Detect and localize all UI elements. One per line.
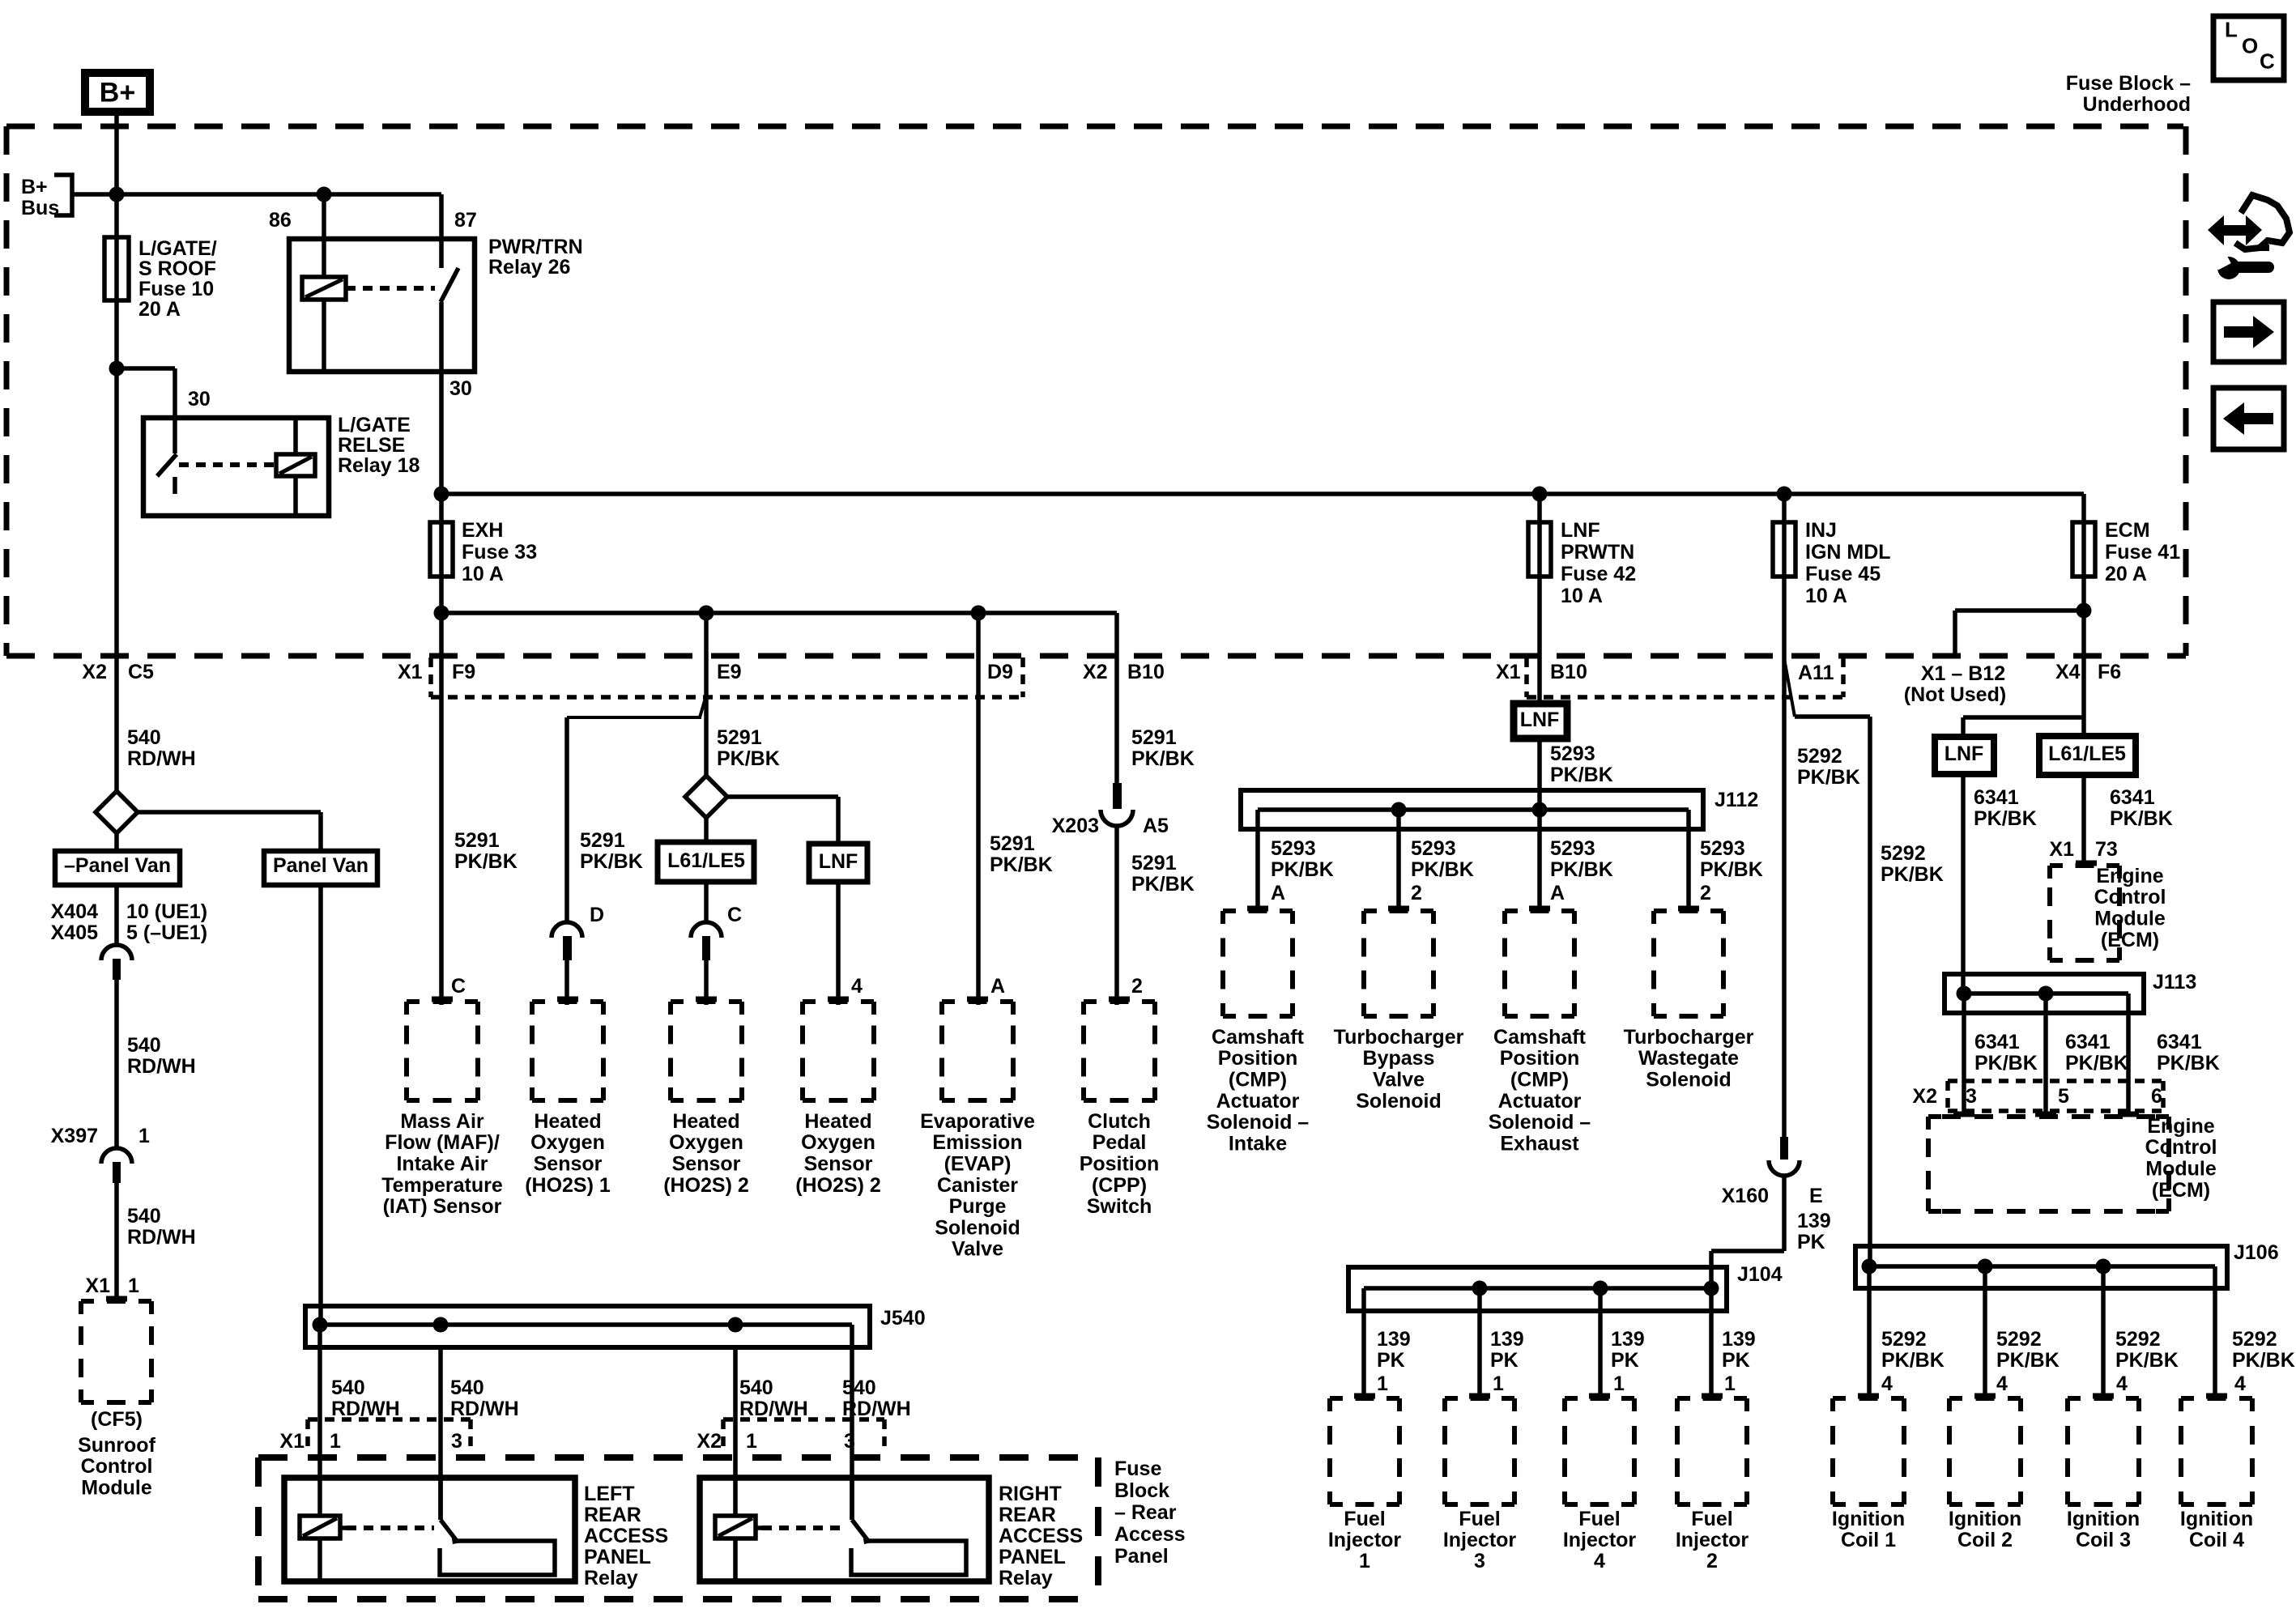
svg-text:S ROOF: S ROOF — [138, 257, 216, 280]
svg-text:Wastegate: Wastegate — [1638, 1047, 1739, 1070]
svg-text:PWR/TRN: PWR/TRN — [488, 236, 583, 258]
svg-text:1: 1 — [330, 1430, 341, 1453]
svg-text:X1: X1 — [398, 661, 423, 683]
svg-text:L: L — [2225, 18, 2238, 42]
svg-text:Position: Position — [1080, 1153, 1160, 1176]
svg-text:L/GATE: L/GATE — [338, 414, 411, 436]
svg-text:LEFT: LEFT — [584, 1483, 635, 1505]
svg-text:X404: X404 — [51, 900, 98, 923]
svg-text:Valve: Valve — [952, 1238, 1003, 1261]
svg-text:3: 3 — [1966, 1085, 1977, 1108]
svg-text:RD/WH: RD/WH — [450, 1398, 519, 1420]
svg-text:10 A: 10 A — [1561, 585, 1603, 607]
svg-text:1: 1 — [138, 1125, 150, 1147]
svg-text:Oxygen: Oxygen — [669, 1131, 743, 1154]
svg-text:X160: X160 — [1722, 1185, 1769, 1207]
svg-text:139: 139 — [1797, 1210, 1831, 1232]
svg-text:Sensor: Sensor — [534, 1153, 603, 1176]
svg-text:87: 87 — [454, 209, 477, 232]
svg-text:A11: A11 — [1798, 662, 1834, 684]
svg-text:RIGHT: RIGHT — [999, 1483, 1062, 1505]
svg-text:Intake: Intake — [1229, 1132, 1287, 1155]
svg-text:RD/WH: RD/WH — [127, 1226, 196, 1249]
svg-text:PK/BK: PK/BK — [1550, 764, 1613, 786]
svg-text:(HO2S) 2: (HO2S) 2 — [795, 1174, 881, 1197]
svg-text:X405: X405 — [51, 921, 98, 944]
svg-text:Clutch: Clutch — [1088, 1110, 1151, 1133]
svg-text:6: 6 — [2151, 1085, 2162, 1108]
svg-text:Panel: Panel — [1114, 1545, 1169, 1568]
svg-text:2: 2 — [1411, 882, 1422, 904]
svg-text:PK/BK: PK/BK — [2115, 1349, 2179, 1372]
svg-text:Module: Module — [81, 1477, 152, 1500]
svg-text:O: O — [2242, 34, 2258, 58]
svg-text:PK/BK: PK/BK — [990, 853, 1053, 876]
svg-text:Sensor: Sensor — [672, 1153, 741, 1176]
svg-text:PK/BK: PK/BK — [2157, 1052, 2220, 1074]
svg-text:PK: PK — [1611, 1349, 1639, 1372]
svg-text:–Panel Van: –Panel Van — [64, 854, 171, 877]
svg-text:Temperature: Temperature — [381, 1174, 503, 1197]
svg-text:10 A: 10 A — [1805, 585, 1847, 607]
svg-text:LNF: LNF — [1520, 709, 1560, 731]
svg-text:PK/BK: PK/BK — [1700, 858, 1763, 881]
svg-text:Coil 1: Coil 1 — [1841, 1529, 1896, 1551]
svg-text:ECM: ECM — [2105, 519, 2150, 542]
svg-text:X2: X2 — [1083, 661, 1108, 683]
svg-text:Coil 4: Coil 4 — [2189, 1529, 2244, 1551]
svg-text:Relay: Relay — [999, 1567, 1053, 1589]
svg-text:Exhaust: Exhaust — [1500, 1132, 1579, 1155]
svg-text:1: 1 — [1724, 1372, 1736, 1395]
svg-text:Access: Access — [1114, 1523, 1186, 1546]
svg-text:Solenoid: Solenoid — [1356, 1090, 1442, 1113]
svg-text:PK/BK: PK/BK — [1881, 863, 1944, 886]
svg-text:139: 139 — [1611, 1328, 1645, 1351]
svg-text:(ECM): (ECM) — [2152, 1179, 2210, 1202]
svg-text:6341: 6341 — [2065, 1031, 2111, 1053]
svg-text:6341: 6341 — [2157, 1031, 2202, 1053]
svg-text:LNF: LNF — [1561, 519, 1600, 542]
svg-text:Intake Air: Intake Air — [396, 1153, 488, 1176]
svg-text:X397: X397 — [51, 1125, 98, 1147]
svg-text:PK: PK — [1490, 1349, 1519, 1372]
svg-text:5293: 5293 — [1550, 743, 1595, 765]
svg-text:5291: 5291 — [990, 832, 1035, 855]
svg-text:5291: 5291 — [580, 829, 625, 852]
svg-text:5293: 5293 — [1550, 837, 1595, 860]
svg-text:Sensor: Sensor — [804, 1153, 873, 1176]
svg-text:5291: 5291 — [717, 726, 762, 749]
svg-text:EXH: EXH — [462, 519, 503, 542]
svg-text:Evaporative: Evaporative — [920, 1110, 1035, 1133]
svg-text:X2: X2 — [696, 1430, 722, 1453]
svg-text:2: 2 — [1131, 975, 1143, 998]
svg-text:4: 4 — [851, 975, 863, 998]
svg-text:Heated: Heated — [534, 1110, 601, 1133]
svg-text:Bus: Bus — [21, 197, 59, 219]
svg-text:1: 1 — [128, 1274, 139, 1297]
svg-text:Bypass: Bypass — [1363, 1047, 1435, 1070]
svg-text:6341: 6341 — [1974, 786, 2019, 809]
svg-text:540: 540 — [842, 1377, 876, 1399]
svg-text:4: 4 — [1996, 1372, 2008, 1395]
svg-text:139: 139 — [1377, 1328, 1411, 1351]
svg-text:B+: B+ — [21, 176, 48, 198]
svg-text:5293: 5293 — [1271, 837, 1316, 860]
svg-text:Fuse Block –: Fuse Block – — [2066, 72, 2191, 95]
svg-text:Camshaft: Camshaft — [1212, 1026, 1305, 1049]
svg-text:(ECM): (ECM) — [2101, 929, 2159, 951]
svg-text:5291: 5291 — [1131, 852, 1177, 874]
svg-text:Position: Position — [1500, 1047, 1580, 1070]
svg-text:PK/BK: PK/BK — [2110, 807, 2173, 830]
svg-text:Flow (MAF)/: Flow (MAF)/ — [385, 1131, 500, 1154]
svg-text:Module: Module — [2145, 1158, 2217, 1181]
svg-text:Fuse: Fuse — [1114, 1457, 1161, 1480]
svg-text:Camshaft: Camshaft — [1493, 1026, 1587, 1049]
svg-text:J540: J540 — [880, 1307, 926, 1330]
svg-text:Coil 2: Coil 2 — [1957, 1529, 2013, 1551]
svg-text:Control: Control — [81, 1455, 153, 1478]
svg-text:IGN MDL: IGN MDL — [1805, 541, 1891, 564]
svg-text:RD/WH: RD/WH — [127, 1055, 196, 1078]
svg-text:Turbocharger: Turbocharger — [1334, 1026, 1464, 1049]
svg-text:Turbocharger: Turbocharger — [1624, 1026, 1754, 1049]
svg-text:Actuator: Actuator — [1498, 1090, 1582, 1113]
svg-text:20 A: 20 A — [2105, 563, 2147, 585]
svg-text:L/GATE/: L/GATE/ — [138, 237, 217, 260]
svg-text:(IAT) Sensor: (IAT) Sensor — [383, 1195, 502, 1218]
svg-text:PK: PK — [1797, 1231, 1825, 1253]
svg-text:J104: J104 — [1737, 1263, 1783, 1286]
svg-text:Mass Air: Mass Air — [400, 1110, 484, 1133]
svg-text:1: 1 — [1613, 1372, 1625, 1395]
svg-text:Emission: Emission — [932, 1131, 1022, 1154]
svg-text:PK/BK: PK/BK — [2232, 1349, 2295, 1372]
svg-text:PK/BK: PK/BK — [1996, 1349, 2060, 1372]
svg-text:C: C — [727, 904, 742, 926]
svg-text:Block: Block — [1114, 1479, 1169, 1502]
svg-text:X2: X2 — [82, 661, 107, 683]
svg-text:Solenoid: Solenoid — [1646, 1069, 1732, 1091]
svg-text:(CMP): (CMP) — [1229, 1069, 1287, 1091]
svg-text:X1: X1 — [85, 1274, 110, 1297]
svg-text:4: 4 — [2116, 1372, 2128, 1395]
svg-text:PANEL: PANEL — [999, 1546, 1066, 1568]
svg-text:RD/WH: RD/WH — [842, 1398, 911, 1420]
svg-text:Panel Van: Panel Van — [273, 854, 368, 877]
svg-text:30: 30 — [449, 377, 472, 400]
svg-text:REAR: REAR — [999, 1504, 1056, 1526]
svg-text:Engine: Engine — [2096, 865, 2163, 887]
svg-text:Sunroof: Sunroof — [78, 1434, 155, 1457]
svg-text:PK/BK: PK/BK — [717, 747, 780, 770]
svg-text:PK: PK — [1377, 1349, 1405, 1372]
svg-text:Switch: Switch — [1087, 1195, 1152, 1218]
svg-text:6341: 6341 — [2110, 786, 2155, 809]
svg-text:86: 86 — [269, 209, 292, 232]
svg-text:Solenoid –: Solenoid – — [1489, 1111, 1591, 1134]
svg-text:5292: 5292 — [1881, 1328, 1927, 1351]
svg-text:Solenoid: Solenoid — [935, 1216, 1020, 1239]
svg-text:(HO2S) 1: (HO2S) 1 — [525, 1174, 611, 1197]
svg-text:Underhood: Underhood — [2083, 93, 2191, 116]
svg-text:3: 3 — [1474, 1550, 1485, 1572]
svg-text:(HO2S) 2: (HO2S) 2 — [663, 1174, 749, 1197]
svg-text:Canister: Canister — [937, 1174, 1018, 1197]
svg-text:Injector: Injector — [1563, 1529, 1637, 1551]
svg-text:PK/BK: PK/BK — [1797, 766, 1860, 789]
svg-text:X1: X1 — [279, 1430, 305, 1453]
svg-text:1: 1 — [1359, 1550, 1370, 1572]
svg-text:2: 2 — [1700, 882, 1711, 904]
svg-text:PK/BK: PK/BK — [1131, 747, 1195, 770]
svg-text:4: 4 — [1594, 1550, 1605, 1572]
svg-text:D9: D9 — [987, 661, 1013, 683]
svg-text:Ignition: Ignition — [1832, 1508, 1905, 1530]
svg-text:Oxygen: Oxygen — [530, 1131, 605, 1154]
svg-text:5293: 5293 — [1700, 837, 1745, 860]
svg-text:X2: X2 — [1912, 1085, 1937, 1108]
svg-text:Fuse 42: Fuse 42 — [1561, 563, 1636, 585]
svg-text:Ignition: Ignition — [2067, 1508, 2140, 1530]
svg-text:A: A — [1550, 882, 1565, 904]
svg-text:– Rear: – Rear — [1114, 1501, 1177, 1524]
svg-text:Control: Control — [2145, 1136, 2217, 1159]
svg-text:F9: F9 — [452, 661, 475, 683]
svg-text:Heated: Heated — [804, 1110, 871, 1133]
svg-text:E: E — [1809, 1185, 1823, 1207]
svg-text:J113: J113 — [2153, 971, 2196, 994]
svg-text:RD/WH: RD/WH — [127, 747, 196, 770]
svg-text:Actuator: Actuator — [1216, 1090, 1300, 1113]
svg-text:PANEL: PANEL — [584, 1546, 651, 1568]
svg-text:J106: J106 — [2234, 1241, 2279, 1264]
svg-text:Purge: Purge — [949, 1195, 1007, 1218]
svg-text:4: 4 — [1881, 1372, 1893, 1395]
svg-text:RD/WH: RD/WH — [739, 1398, 808, 1420]
svg-text:PK/BK: PK/BK — [1131, 873, 1195, 896]
svg-text:C5: C5 — [128, 661, 154, 683]
svg-text:Ignition: Ignition — [2180, 1508, 2253, 1530]
svg-text:B10: B10 — [1127, 661, 1165, 683]
svg-text:1: 1 — [1493, 1372, 1504, 1395]
svg-text:B10: B10 — [1550, 661, 1587, 683]
svg-text:3: 3 — [844, 1430, 855, 1453]
svg-text:5291: 5291 — [1131, 726, 1177, 749]
svg-text:Fuse 33: Fuse 33 — [462, 541, 537, 564]
svg-text:1: 1 — [1377, 1372, 1388, 1395]
svg-text:RD/WH: RD/WH — [331, 1398, 400, 1420]
svg-text:1: 1 — [746, 1430, 757, 1453]
svg-text:(CF5): (CF5) — [91, 1408, 143, 1431]
svg-text:Fuse 45: Fuse 45 — [1805, 563, 1881, 585]
svg-text:139: 139 — [1490, 1328, 1524, 1351]
svg-text:Oxygen: Oxygen — [801, 1131, 875, 1154]
svg-text:A: A — [1271, 882, 1285, 904]
svg-text:LNF: LNF — [819, 850, 858, 873]
svg-text:Relay: Relay — [584, 1567, 638, 1589]
svg-text:5292: 5292 — [1996, 1328, 2042, 1351]
svg-text:5292: 5292 — [1881, 842, 1926, 865]
svg-text:Fuel: Fuel — [1344, 1508, 1385, 1530]
svg-text:PK/BK: PK/BK — [1550, 858, 1613, 881]
svg-text:10 (UE1): 10 (UE1) — [126, 900, 207, 923]
svg-text:Injector: Injector — [1443, 1529, 1517, 1551]
svg-text:5292: 5292 — [2232, 1328, 2277, 1351]
svg-text:D: D — [590, 904, 604, 926]
svg-text:Engine: Engine — [2147, 1115, 2214, 1138]
svg-text:X1: X1 — [2049, 838, 2074, 861]
svg-text:Relay 26: Relay 26 — [488, 256, 570, 279]
svg-text:540: 540 — [739, 1377, 773, 1399]
svg-text:Fuel: Fuel — [1578, 1508, 1620, 1530]
svg-text:PK/BK: PK/BK — [1881, 1349, 1945, 1372]
svg-text:Valve: Valve — [1373, 1069, 1425, 1091]
svg-text:Injector: Injector — [1328, 1529, 1402, 1551]
svg-text:PK/BK: PK/BK — [1974, 807, 2037, 830]
svg-text:X4: X4 — [2055, 661, 2081, 683]
svg-text:PK/BK: PK/BK — [1974, 1052, 2038, 1074]
svg-text:A5: A5 — [1143, 815, 1169, 837]
svg-text:139: 139 — [1722, 1328, 1756, 1351]
svg-text:INJ: INJ — [1805, 519, 1837, 542]
svg-text:X203: X203 — [1052, 815, 1099, 837]
svg-text:J112: J112 — [1715, 789, 1758, 811]
svg-text:Control: Control — [2094, 886, 2166, 908]
svg-text:PK/BK: PK/BK — [454, 850, 518, 873]
svg-text:540: 540 — [127, 726, 161, 749]
svg-text:Relay 18: Relay 18 — [338, 454, 420, 477]
svg-text:C: C — [2260, 49, 2275, 74]
svg-text:PK/BK: PK/BK — [1271, 858, 1334, 881]
svg-text:5292: 5292 — [1797, 745, 1842, 768]
svg-text:5292: 5292 — [2115, 1328, 2161, 1351]
svg-text:ACCESS: ACCESS — [584, 1525, 668, 1547]
svg-text:LNF: LNF — [1945, 743, 1984, 765]
svg-text:L61/LE5: L61/LE5 — [2048, 743, 2126, 765]
svg-text:Fuse 41: Fuse 41 — [2105, 541, 2180, 564]
svg-text:Fuel: Fuel — [1691, 1508, 1732, 1530]
svg-text:E9: E9 — [717, 661, 742, 683]
svg-text:Coil 3: Coil 3 — [2076, 1529, 2131, 1551]
svg-text:PRWTN: PRWTN — [1561, 541, 1634, 564]
svg-text:PK/BK: PK/BK — [2065, 1052, 2128, 1074]
svg-text:4: 4 — [2234, 1372, 2246, 1395]
svg-text:ACCESS: ACCESS — [999, 1525, 1083, 1547]
svg-text:REAR: REAR — [584, 1504, 641, 1526]
svg-text:F6: F6 — [2098, 661, 2121, 683]
svg-text:Heated: Heated — [672, 1110, 739, 1133]
svg-text:540: 540 — [450, 1377, 484, 1399]
svg-text:3: 3 — [451, 1430, 462, 1453]
svg-text:RELSE: RELSE — [338, 434, 405, 457]
svg-text:C: C — [451, 975, 466, 998]
svg-text:5 (–UE1): 5 (–UE1) — [126, 921, 207, 944]
svg-text:540: 540 — [127, 1205, 161, 1228]
svg-text:5: 5 — [2058, 1085, 2069, 1108]
svg-text:73: 73 — [2095, 838, 2118, 861]
svg-text:(CMP): (CMP) — [1510, 1069, 1569, 1091]
svg-text:Solenoid –: Solenoid – — [1207, 1111, 1310, 1134]
svg-text:30: 30 — [188, 388, 211, 411]
svg-text:X1: X1 — [1496, 661, 1521, 683]
svg-text:PK/BK: PK/BK — [580, 850, 643, 873]
svg-text:Pedal: Pedal — [1093, 1131, 1147, 1154]
svg-text:Position: Position — [1218, 1047, 1298, 1070]
svg-text:20 A: 20 A — [138, 298, 181, 321]
svg-text:Injector: Injector — [1676, 1529, 1749, 1551]
svg-text:PK: PK — [1722, 1349, 1750, 1372]
svg-text:10 A: 10 A — [462, 563, 504, 585]
svg-text:(EVAP): (EVAP) — [944, 1153, 1012, 1176]
svg-text:X1 – B12: X1 – B12 — [1921, 662, 2005, 685]
svg-text:Fuel: Fuel — [1459, 1508, 1500, 1530]
svg-text:(Not Used): (Not Used) — [1904, 683, 2006, 706]
svg-text:Module: Module — [2094, 908, 2166, 930]
svg-text:5291: 5291 — [454, 829, 500, 852]
svg-text:B+: B+ — [100, 77, 135, 108]
svg-text:540: 540 — [127, 1034, 161, 1057]
svg-text:2: 2 — [1706, 1550, 1718, 1572]
svg-text:Ignition: Ignition — [1949, 1508, 2021, 1530]
svg-text:PK/BK: PK/BK — [1411, 858, 1474, 881]
svg-text:6341: 6341 — [1974, 1031, 2020, 1053]
svg-text:A: A — [990, 975, 1005, 998]
svg-text:(CPP): (CPP) — [1092, 1174, 1147, 1197]
svg-text:L61/LE5: L61/LE5 — [667, 849, 745, 872]
svg-text:Fuse 10: Fuse 10 — [138, 278, 214, 300]
svg-text:540: 540 — [331, 1377, 365, 1399]
svg-text:5293: 5293 — [1411, 837, 1456, 860]
